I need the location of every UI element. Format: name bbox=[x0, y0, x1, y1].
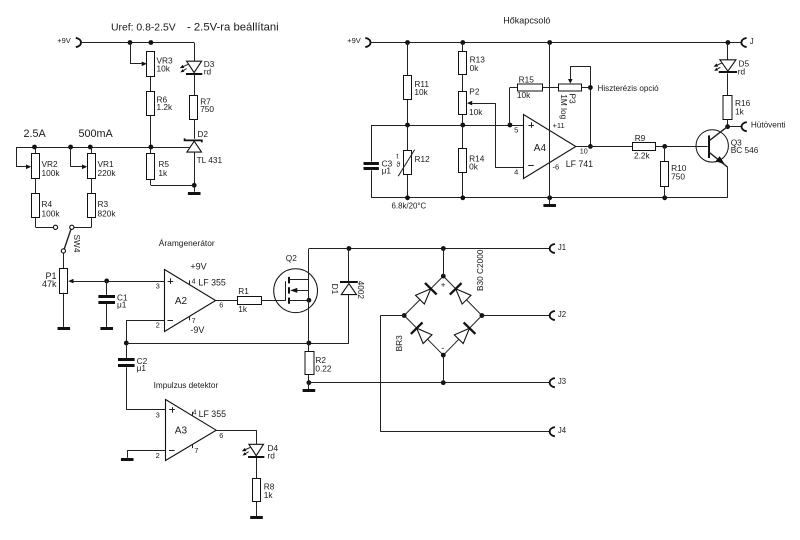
svg-text:R12: R12 bbox=[415, 154, 431, 164]
svg-text:LF 741: LF 741 bbox=[566, 159, 593, 169]
svg-text:820k: 820k bbox=[98, 208, 117, 218]
svg-text:750: 750 bbox=[671, 172, 685, 182]
svg-text:750: 750 bbox=[200, 104, 214, 114]
svg-text:2.5A: 2.5A bbox=[24, 128, 47, 140]
svg-text:t: t bbox=[396, 154, 398, 161]
svg-text:1.2k: 1.2k bbox=[157, 102, 174, 112]
svg-text:4002: 4002 bbox=[356, 281, 366, 300]
svg-text:2: 2 bbox=[156, 321, 160, 330]
svg-text:100k: 100k bbox=[42, 208, 61, 218]
svg-text:SW4: SW4 bbox=[72, 235, 82, 253]
svg-text:LF 355: LF 355 bbox=[198, 278, 225, 288]
svg-text:D1: D1 bbox=[330, 284, 340, 295]
svg-text:R9: R9 bbox=[635, 133, 646, 143]
svg-text:2.2k: 2.2k bbox=[634, 150, 651, 160]
svg-text:R15: R15 bbox=[519, 74, 535, 84]
svg-text:0k: 0k bbox=[470, 63, 480, 73]
svg-text:0.22: 0.22 bbox=[315, 364, 332, 374]
svg-text:4: 4 bbox=[193, 409, 197, 416]
svg-text:μ1: μ1 bbox=[137, 363, 147, 373]
svg-text:-: - bbox=[441, 343, 444, 353]
svg-text:Hütöventi: Hütöventi bbox=[751, 121, 786, 130]
svg-text:-6: -6 bbox=[553, 163, 560, 172]
svg-text:+9V: +9V bbox=[347, 36, 361, 45]
svg-text:4: 4 bbox=[514, 168, 518, 177]
svg-text:10k: 10k bbox=[157, 63, 171, 73]
svg-text:4: 4 bbox=[192, 276, 196, 285]
svg-text:6: 6 bbox=[219, 301, 223, 310]
svg-text:A2: A2 bbox=[175, 296, 188, 307]
svg-text:A4: A4 bbox=[534, 143, 547, 154]
svg-text:220k: 220k bbox=[98, 168, 117, 178]
svg-text:7: 7 bbox=[194, 446, 198, 455]
svg-text:R1: R1 bbox=[238, 286, 249, 296]
svg-text:J1: J1 bbox=[558, 243, 566, 252]
svg-text:1k: 1k bbox=[238, 304, 248, 314]
svg-text:10k: 10k bbox=[469, 107, 483, 117]
svg-text:3: 3 bbox=[156, 282, 160, 291]
svg-text:6: 6 bbox=[219, 431, 223, 440]
svg-text:- 2.5V-ra beállítani: - 2.5V-ra beállítani bbox=[187, 22, 279, 34]
svg-text:1k: 1k bbox=[264, 490, 274, 500]
svg-text:BR3: BR3 bbox=[394, 335, 404, 352]
svg-text:P2: P2 bbox=[469, 87, 480, 97]
svg-text:ϑ: ϑ bbox=[396, 162, 400, 169]
svg-text:-9V: -9V bbox=[190, 325, 204, 335]
svg-text:J2: J2 bbox=[558, 310, 566, 319]
svg-text:500mA: 500mA bbox=[79, 128, 114, 140]
svg-text:1k: 1k bbox=[158, 168, 168, 178]
svg-text:J4: J4 bbox=[558, 426, 567, 435]
svg-text:3: 3 bbox=[156, 410, 160, 419]
svg-text:+11: +11 bbox=[553, 121, 565, 130]
svg-text:Uref: 0.8-2.5V: Uref: 0.8-2.5V bbox=[111, 23, 176, 34]
svg-text:47k: 47k bbox=[42, 279, 57, 289]
svg-text:rd: rd bbox=[268, 451, 276, 461]
svg-text:2: 2 bbox=[156, 451, 160, 460]
svg-text:10k: 10k bbox=[414, 87, 428, 97]
svg-text:J: J bbox=[750, 37, 754, 46]
svg-text:+9V: +9V bbox=[57, 36, 71, 45]
svg-text:+9V: +9V bbox=[190, 261, 206, 271]
svg-text:5: 5 bbox=[514, 125, 518, 134]
svg-text:B30 C2000: B30 C2000 bbox=[475, 249, 485, 291]
svg-text:A3: A3 bbox=[175, 426, 188, 437]
svg-text:BC 546: BC 546 bbox=[731, 145, 759, 155]
svg-text:+: + bbox=[441, 281, 446, 290]
svg-text:10: 10 bbox=[580, 147, 588, 156]
svg-text:D2: D2 bbox=[197, 129, 208, 139]
svg-text:Q2: Q2 bbox=[286, 253, 297, 263]
svg-text:LF 355: LF 355 bbox=[199, 409, 226, 419]
svg-text:0k: 0k bbox=[469, 161, 479, 171]
svg-text:TL 431: TL 431 bbox=[197, 155, 223, 165]
svg-text:J3: J3 bbox=[558, 377, 566, 386]
svg-text:rd: rd bbox=[204, 66, 212, 76]
svg-text:Áramgenerátor: Áramgenerátor bbox=[159, 238, 215, 248]
svg-text:100k: 100k bbox=[42, 168, 61, 178]
svg-text:1k: 1k bbox=[735, 106, 745, 116]
svg-text:Hiszterézis opció: Hiszterézis opció bbox=[598, 84, 660, 93]
svg-text:μ1: μ1 bbox=[382, 166, 392, 176]
svg-text:10k: 10k bbox=[517, 90, 531, 100]
svg-text:μ1: μ1 bbox=[117, 300, 127, 310]
svg-text:6.8k/20°C: 6.8k/20°C bbox=[392, 202, 427, 211]
svg-text:1M log: 1M log bbox=[559, 94, 569, 119]
svg-text:rd: rd bbox=[738, 67, 746, 77]
svg-text:7: 7 bbox=[192, 316, 196, 325]
svg-text:Hőkapcsoló: Hőkapcsoló bbox=[503, 15, 550, 25]
svg-text:Impulzus detektor: Impulzus detektor bbox=[154, 381, 219, 390]
